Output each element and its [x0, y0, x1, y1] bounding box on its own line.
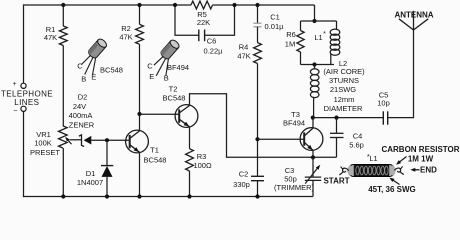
wire D1 bottom lead [106, 177, 108, 197]
svg-text:C: C [77, 61, 83, 70]
svg-text:3TURNS: 3TURNS [329, 76, 359, 85]
junction node D1 bottom [105, 194, 109, 198]
arrow 1M 1W to resistor [398, 157, 407, 164]
wire T3 collector lead [312, 118, 314, 129]
junction node R1 top [61, 3, 65, 7]
svg-text:12mm: 12mm [334, 95, 355, 104]
wire C6 branch left [175, 5, 199, 35]
wire C1 top lead [257, 5, 259, 23]
wire tank bottom [301, 64, 335, 66]
svg-text:PRESET: PRESET [30, 148, 60, 157]
svg-text:C1: C1 [270, 13, 280, 22]
wire R3 bottom lead [189, 171, 191, 197]
capacitor C4 [336, 118, 338, 134]
svg-text:1N4007: 1N4007 [77, 178, 103, 187]
wire T2 emitter lead [189, 127, 191, 149]
wire antenna lead [413, 30, 415, 118]
capacitor C5 [382, 111, 384, 124]
wire C5 to antenna [388, 117, 414, 119]
wire tank top [301, 20, 337, 22]
svg-text:47K: 47K [44, 33, 57, 42]
junction node C4 top [334, 116, 338, 120]
svg-text:CARBON RESISTOR: CARBON RESISTOR [381, 145, 459, 154]
wire C4 to emitter node [313, 156, 337, 158]
end pigtail wire of L1 [395, 168, 401, 172]
capacitor C6 [198, 30, 200, 42]
wire T1 collector lead [139, 114, 141, 131]
junction node tank bottom [312, 62, 316, 66]
svg-text:D1: D1 [86, 169, 96, 178]
wire T1 emitter lead [139, 152, 141, 197]
svg-text:400mA: 400mA [69, 111, 93, 120]
junction node C1 top [255, 3, 259, 7]
junction node R5-C6 left [173, 3, 177, 7]
svg-text:(AIR CORE): (AIR CORE) [323, 67, 365, 76]
capacitor C1 [254, 22, 262, 24]
wire left vertical to + terminal [23, 4, 25, 83]
svg-text:BC548: BC548 [100, 65, 123, 74]
svg-text:END: END [420, 165, 437, 174]
junction node R5-C6 right [232, 3, 236, 7]
svg-text:0.22µ: 0.22µ [204, 47, 224, 56]
svg-text:45T, 36 SWG: 45T, 36 SWG [368, 185, 416, 194]
svg-text:47K: 47K [119, 33, 132, 42]
arrow 45T to winding [391, 179, 400, 185]
wire C2 bottom lead [257, 181, 259, 197]
svg-text:1M: 1M [285, 40, 295, 49]
svg-text:R6: R6 [286, 30, 296, 39]
svg-text:C4: C4 [353, 132, 363, 141]
antenna [399, 19, 414, 30]
wire D1 top lead [106, 140, 108, 165]
svg-text:R4: R4 [239, 43, 249, 52]
wire rail corner down to tank [314, 5, 316, 21]
svg-text:22K: 22K [197, 18, 210, 27]
wire T2 base [140, 113, 180, 115]
wiper arrow of VR1 [70, 139, 82, 141]
transistor T1 BC548 [126, 130, 149, 153]
wire T2 collector to T3 emitter node [190, 94, 313, 157]
wire C6 branch right [205, 5, 235, 35]
resistor R6 [297, 31, 304, 53]
svg-text:C2: C2 [239, 170, 249, 179]
junction node T3 base [255, 137, 259, 141]
wire R2 top lead [139, 5, 141, 24]
junction node R3 bottom [187, 194, 191, 198]
svg-text:BC548: BC548 [163, 94, 186, 103]
svg-text:0.01µ: 0.01µ [265, 22, 285, 31]
wire top supply rail right segment [213, 4, 315, 6]
start pigtail wire of L1 [343, 168, 349, 172]
wire R1 to VR1 [62, 46, 64, 126]
svg-text:B: B [164, 74, 169, 83]
svg-text:B: B [81, 75, 86, 84]
carbon resistor body (L1 former) [349, 164, 395, 176]
wire R4 to C2 [257, 64, 259, 177]
svg-text:E: E [91, 73, 96, 82]
svg-text:(TRIMMER): (TRIMMER) [274, 183, 314, 192]
wire T3 base [258, 138, 305, 140]
capacitor C2 [251, 175, 264, 177]
svg-text:10p: 10p [377, 99, 390, 108]
svg-text:T1: T1 [150, 146, 159, 155]
junction node T3 collector / L2 [311, 116, 315, 120]
wire D2 to T1 base [91, 139, 130, 141]
svg-text:DIAMETER: DIAMETER [324, 104, 363, 113]
inductor L2 [314, 65, 316, 70]
junction node C2 bottom [255, 194, 259, 198]
svg-text:330p: 330p [233, 180, 250, 189]
svg-text:100Ω: 100Ω [193, 161, 212, 170]
trimmer capacitor C3 [305, 176, 321, 178]
terminal - telephone line [21, 106, 26, 111]
transistor package BF494 (TO-92 drawing) [159, 38, 180, 60]
junction node T1 emitter bottom [137, 194, 141, 198]
wire R1 top lead [62, 5, 64, 26]
svg-text:BC548: BC548 [144, 156, 167, 165]
svg-text:5.6p: 5.6p [349, 141, 364, 150]
transistor package BC548 (TO-92 drawing) [87, 37, 108, 59]
junction node T1 collector / T2 base [137, 112, 141, 116]
transistor T2 BC548 [175, 105, 198, 128]
svg-text:C: C [147, 61, 153, 70]
wire top supply rail left segment [24, 4, 192, 6]
wire left vertical from - terminal to bottom rail [23, 111, 25, 197]
wire R6 top lead [300, 21, 302, 31]
wire C1 to R4 [257, 27, 259, 43]
svg-text:D2: D2 [78, 93, 88, 102]
svg-text:LINES: LINES [14, 98, 39, 107]
resistor R2 [136, 24, 144, 44]
svg-text:T2: T2 [169, 85, 178, 94]
diode D1 [101, 165, 113, 167]
wire VR1 bottom lead [62, 148, 64, 197]
wire C3 bottom lead [312, 180, 314, 196]
svg-text:+: + [12, 81, 16, 88]
svg-text:24V: 24V [73, 102, 86, 111]
junction node T3 emitter [311, 155, 315, 159]
svg-text:100K: 100K [34, 139, 52, 148]
resistor R1 [59, 26, 67, 46]
wire bottom ground rail [23, 196, 313, 198]
transistor T3 BF494 [300, 128, 323, 151]
junction node D1 top [105, 138, 109, 142]
wire C3 top lead [312, 157, 314, 177]
junction node tank top [312, 19, 316, 23]
svg-text:ZENER: ZENER [69, 120, 95, 129]
svg-text:L1: L1 [314, 33, 322, 42]
zener diode D2 [79, 135, 84, 147]
wire R6 bottom lead [300, 52, 302, 65]
svg-text:47K: 47K [237, 52, 250, 61]
svg-text:BF494: BF494 [167, 63, 189, 72]
wire R2 to T1 collector node [139, 44, 141, 114]
svg-text:*: * [323, 31, 326, 38]
preset VR1 [59, 126, 68, 148]
svg-text:L1: L1 [369, 154, 377, 163]
svg-text:−: − [13, 106, 18, 115]
resistor R3 [186, 149, 194, 171]
resistor R5 [191, 1, 213, 9]
svg-text:21SWG: 21SWG [330, 85, 356, 94]
svg-text:C6: C6 [207, 37, 217, 46]
svg-text:START: START [323, 177, 349, 186]
junction node VR1 bottom [61, 194, 65, 198]
wire oscillator output rail [313, 117, 384, 119]
terminal + telephone line [21, 83, 26, 88]
svg-text:BF494: BF494 [283, 119, 305, 128]
inductor L1 [336, 21, 338, 30]
svg-text:E: E [149, 72, 154, 81]
resistor R4 [254, 43, 262, 64]
arrow END to wire end [412, 169, 419, 171]
wire T3 emitter lead [312, 150, 314, 157]
svg-text:1M 1W: 1M 1W [408, 155, 434, 164]
junction node R2 top [137, 3, 141, 7]
